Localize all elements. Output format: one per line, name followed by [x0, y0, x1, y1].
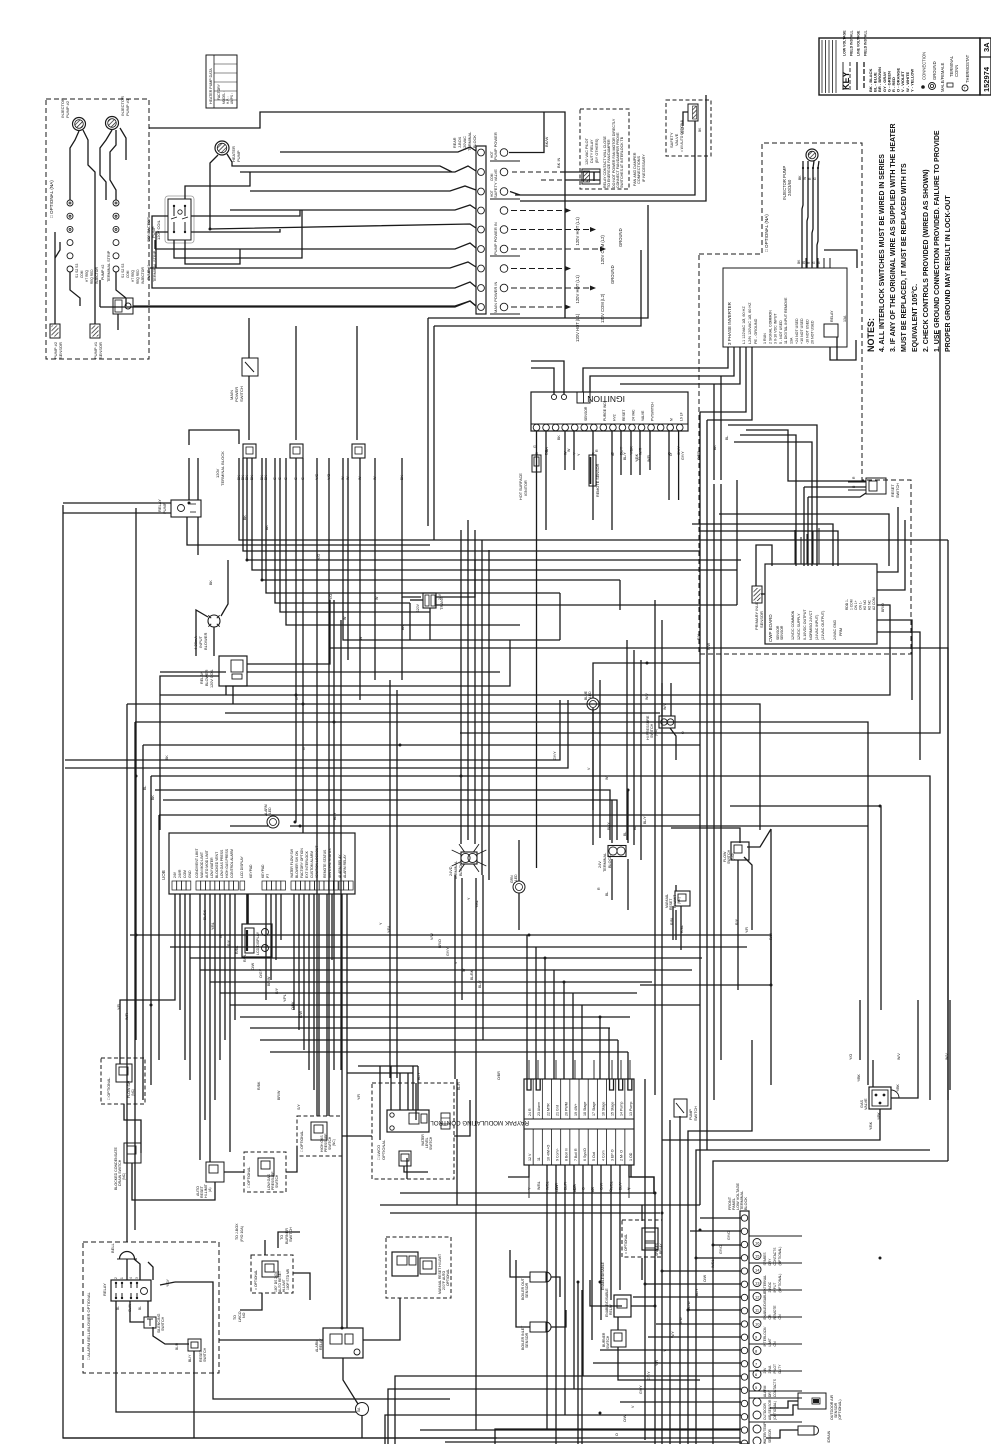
svg-text:AMPS :: AMPS :	[230, 93, 234, 104]
svg-text:BK: BK	[713, 445, 717, 450]
svg-text:RELAY: RELAY	[157, 499, 162, 512]
svg-text:(OPTIONAL): (OPTIONAL)	[838, 1399, 842, 1420]
svg-text:LOW WATER: LOW WATER	[210, 857, 214, 878]
svg-text:LINE VOLTAGE: LINE VOLTAGE	[857, 30, 861, 56]
svg-text:IF NECESSARY: IF NECESSARY	[642, 154, 646, 182]
svg-text:16 Stage: 16 Stage	[601, 1102, 605, 1116]
svg-text:16: 16	[755, 1241, 760, 1246]
svg-text:GY/Y: GY/Y	[681, 451, 685, 460]
svg-text:3. IF ANY OF THE ORIGINAL WIRE: 3. IF ANY OF THE ORIGINAL WIRE AS SUPPLI…	[890, 123, 897, 352]
svg-text:INTERLOCK/: INTERLOCK/	[763, 1327, 767, 1347]
svg-text:W/R: W/R	[647, 455, 651, 462]
svg-text:R/BL: R/BL	[670, 917, 674, 925]
svg-text:ALARM RELAY: ALARM RELAY	[343, 854, 347, 878]
svg-text:SWITCH: SWITCH	[239, 386, 244, 402]
svg-text:□ OPTIONAL: □ OPTIONAL	[624, 1234, 628, 1254]
svg-text:BR/O: BR/O	[881, 603, 885, 612]
svg-text:Y/BL: Y/BL	[387, 925, 391, 933]
svg-text:13A: 13A	[790, 337, 794, 344]
svg-text:3: 3	[135, 1277, 139, 1279]
svg-text:OUTDOOR: OUTDOOR	[763, 1403, 767, 1420]
svg-text:BL: BL	[605, 892, 609, 896]
svg-text:BL: BL	[633, 826, 637, 830]
svg-text:13 Pump: 13 Pump	[629, 1102, 633, 1116]
svg-text:BK: BK	[401, 625, 405, 630]
svg-text:HIGH GAS PRESS: HIGH GAS PRESS	[225, 848, 229, 878]
svg-text:BK: BK	[557, 435, 561, 440]
svg-text:11: 11	[537, 1157, 541, 1161]
svg-text:BK/W: BK/W	[544, 137, 549, 147]
svg-text:DUTY RELAY: DUTY RELAY	[590, 139, 594, 163]
svg-text:BL/W: BL/W	[687, 1301, 691, 1310]
svg-text:3 0-10 VDC INPUT: 3 0-10 VDC INPUT	[774, 313, 778, 344]
svg-text:BK: BK	[151, 795, 155, 800]
svg-text:GROUND: GROUND	[932, 61, 937, 80]
svg-text:20 PWM: 20 PWM	[565, 1102, 569, 1116]
svg-text:SWITCH: SWITCH	[429, 1136, 433, 1150]
svg-text:V/W: V/W	[430, 933, 434, 940]
svg-text:BL: BL	[725, 436, 729, 440]
svg-text:23 Alarm: 23 Alarm	[537, 1102, 541, 1116]
svg-text:GY/Y: GY/Y	[647, 1371, 651, 1380]
svg-text:1 RUN: 1 RUN	[763, 333, 767, 344]
svg-text:Y/R: Y/R	[745, 927, 749, 933]
svg-text:4. ALL INTERLOCK SWITCHES MUST: 4. ALL INTERLOCK SWITCHES MUST BE WIRED …	[879, 154, 886, 352]
svg-text:BK: BK	[165, 755, 169, 760]
svg-text:GROUND: GROUND	[610, 265, 615, 284]
svg-text:R/V: R/V	[697, 633, 701, 640]
svg-text:G: G	[295, 697, 299, 700]
svg-text:GY/Y: GY/Y	[639, 1385, 643, 1394]
svg-text:240/3/60: 240/3/60	[787, 179, 792, 196]
svg-text:R/Y: R/Y	[275, 987, 279, 994]
svg-text:GROUND: GROUND	[618, 228, 623, 247]
svg-text:Y/BK: Y/BK	[896, 1084, 900, 1092]
svg-text:O/W: O/W	[251, 962, 255, 970]
svg-text:5 - NOT USED: 5 - NOT USED	[779, 320, 783, 344]
svg-text:W: W	[462, 968, 466, 972]
svg-text:BL: BL	[623, 832, 627, 836]
svg-text:□ OPTIONAL (NA): □ OPTIONAL (NA)	[49, 180, 54, 218]
svg-text:22 MTR: 22 MTR	[546, 1103, 550, 1116]
svg-text:1. USE GROUND CONNECTION PROVI: 1. USE GROUND CONNECTION PROVIDED. FAILU…	[934, 130, 941, 352]
svg-text:TERMINAL: TERMINAL	[603, 853, 607, 872]
svg-text:W/BL: W/BL	[537, 1181, 541, 1190]
svg-text:BL/Y: BL/Y	[333, 812, 337, 820]
svg-text:PUMP: PUMP	[162, 502, 167, 514]
svg-text:15 Stage: 15 Stage	[611, 1102, 615, 1116]
svg-text:ENABLE/DISABLE: ENABLE/DISABLE	[763, 1291, 767, 1320]
svg-text:12VDC COMMON: 12VDC COMMON	[791, 610, 795, 640]
svg-text:Y/O: Y/O	[329, 594, 333, 600]
svg-text:□ OPTIONAL: □ OPTIONAL	[107, 1077, 111, 1100]
svg-text:W: W	[359, 636, 363, 640]
svg-text:120V HOT (L1): 120V HOT (L1)	[575, 275, 580, 304]
svg-text:IGNITOR: IGNITOR	[524, 480, 528, 496]
svg-text:GY/O: GY/O	[719, 1245, 723, 1254]
svg-text:THERMOSTAT: THERMOSTAT	[965, 54, 970, 83]
svg-text:REAR: REAR	[453, 137, 457, 148]
svg-text:11 DIGITAL INPUT REMOVE: 11 DIGITAL INPUT REMOVE	[784, 297, 788, 344]
svg-text:(NC): (NC)	[122, 1173, 126, 1180]
svg-text:LIMIT: LIMIT	[768, 1338, 772, 1346]
svg-text:BELL: BELL	[110, 1242, 115, 1253]
svg-text:AUTO MOD LIMIT: AUTO MOD LIMIT	[205, 850, 209, 878]
svg-text:3 EP O: 3 EP O	[611, 1149, 615, 1161]
svg-text:W: W	[802, 261, 806, 264]
svg-text:Y/O: Y/O	[849, 1054, 853, 1060]
svg-text:BR/W: BR/W	[277, 1090, 281, 1100]
svg-text:7 Boil R: 7 Boil R	[574, 1148, 578, 1161]
svg-text:LED: LED	[514, 874, 518, 881]
svg-text:FACTORY OPTION: FACTORY OPTION	[300, 848, 304, 878]
svg-text:W/V: W/V	[945, 1053, 949, 1060]
svg-text:W/V: W/V	[645, 693, 649, 700]
svg-text:-10 NOT USED: -10 NOT USED	[805, 319, 809, 344]
svg-text:PUMP #1: PUMP #1	[125, 98, 130, 116]
svg-text:120V COIL: 120V COIL	[156, 219, 161, 240]
svg-text:Y/PL: Y/PL	[283, 994, 287, 1002]
svg-text:R/Y: R/Y	[735, 918, 739, 925]
svg-text:NOTES:: NOTES:	[866, 318, 876, 352]
svg-text:BLOWER SW ON: BLOWER SW ON	[295, 850, 299, 878]
svg-text:VALVE: VALVE	[674, 133, 679, 146]
svg-text:FACTORY: FACTORY	[217, 83, 221, 100]
svg-text:CONNECTION: CONNECTION	[922, 52, 927, 80]
svg-text:MALE/FEMALE: MALE/FEMALE	[940, 62, 945, 92]
svg-text:S/Y: S/Y	[297, 1104, 301, 1110]
svg-text:RESET: RESET	[891, 484, 895, 497]
svg-text:4: 4	[129, 1277, 133, 1279]
svg-text:PUMP #1: PUMP #1	[147, 265, 151, 280]
svg-text:ON 1+: ON 1+	[854, 600, 858, 610]
svg-text:W/V: W/V	[897, 1053, 901, 1060]
svg-text:BK: BK	[265, 525, 269, 530]
svg-text:TERMINAL BLOCK: TERMINAL BLOCK	[220, 451, 225, 486]
svg-text:SWITCH: SWITCH	[289, 1227, 293, 1242]
svg-text:Y/BL: Y/BL	[211, 922, 215, 930]
svg-text:BLOCKED VENT: BLOCKED VENT	[215, 852, 219, 878]
svg-text:PUMP: PUMP	[689, 1109, 693, 1120]
svg-text:PUMP: PUMP	[236, 150, 241, 162]
svg-text:Y/BK: Y/BK	[635, 453, 639, 462]
svg-text:DRY: DRY	[768, 1389, 772, 1397]
svg-text:R: R	[597, 887, 601, 890]
svg-text:H2 NC: H2 NC	[868, 599, 872, 610]
svg-text:PV/SWITCH: PV/SWITCH	[651, 402, 655, 421]
svg-text:PUMP #2: PUMP #2	[65, 100, 70, 118]
svg-text:Y/R: Y/R	[357, 1094, 361, 1100]
svg-text:13A: 13A	[843, 315, 847, 322]
svg-text:TO J-BOX: TO J-BOX	[235, 1223, 239, 1240]
svg-text:SWITCH: SWITCH	[694, 1106, 698, 1121]
svg-text:1: 1	[120, 1277, 124, 1279]
svg-text:DUTY: DUTY	[778, 1364, 782, 1374]
svg-text:24V: 24V	[598, 861, 602, 868]
svg-text:6 Sys/O: 6 Sys/O	[583, 1148, 587, 1161]
svg-text:+24 NOT USED: +24 NOT USED	[795, 318, 799, 344]
svg-text:(21VAC OUTPUT): (21VAC OUTPUT)	[821, 611, 825, 640]
svg-text:PROPER GROUND MAY RESULT IN LO: PROPER GROUND MAY RESULT IN LOCK-OUT	[945, 195, 952, 352]
svg-text:(P/O 10A): (P/O 10A)	[240, 1226, 244, 1242]
svg-text:GND: GND	[681, 126, 685, 134]
svg-text:L2/N 120VAC 1Ø, 60 HZ: L2/N 120VAC 1Ø, 60 HZ	[748, 302, 752, 344]
svg-text:REMOTE STATUS: REMOTE STATUS	[323, 849, 327, 878]
svg-text:(24VAC INPUT): (24VAC INPUT)	[815, 615, 819, 640]
svg-text:COND/VENT LIMIT: COND/VENT LIMIT	[195, 848, 199, 878]
svg-text:□ OPTIONAL: □ OPTIONAL	[254, 1270, 258, 1290]
svg-text:L1 122VAC 1Ø, 60 HZ: L1 122VAC 1Ø, 60 HZ	[742, 306, 746, 344]
svg-text:REQ RED: REQ RED	[136, 269, 140, 284]
svg-text:PILOT: PILOT	[773, 1364, 777, 1374]
svg-text:/DRAIN: /DRAIN	[827, 1430, 831, 1443]
svg-text:Y/G: Y/G	[317, 554, 321, 560]
svg-text:TO: TO	[233, 1315, 237, 1320]
svg-text:(NC): (NC)	[332, 1139, 336, 1146]
svg-text:(NO): (NO)	[731, 853, 735, 860]
svg-text:BL/Y: BL/Y	[643, 816, 647, 824]
svg-text:TERMINAL STRIP: TERMINAL STRIP	[107, 250, 111, 282]
svg-text:CONNECTIONS: CONNECTIONS	[637, 155, 641, 184]
svg-text:V/W: V/W	[679, 1317, 683, 1324]
svg-text:8 Boil In: 8 Boil In	[565, 1148, 569, 1161]
svg-text:BR: BR	[591, 1187, 595, 1192]
svg-text:Y/BK: Y/BK	[857, 1074, 861, 1082]
svg-text:AIR SENSOR: AIR SENSOR	[768, 1399, 772, 1420]
svg-text:SWITCH: SWITCH	[203, 1347, 207, 1362]
svg-text:2. CHECK CONTROLS PROVIDED (WI: 2. CHECK CONTROLS PROVIDED (WIRED AS SHO…	[923, 169, 930, 352]
svg-text:O: O	[609, 1189, 613, 1192]
svg-text:WATER/TEMP: WATER/TEMP	[763, 1422, 767, 1444]
svg-text:BL/Y: BL/Y	[478, 980, 482, 988]
svg-text:12: 12	[755, 1295, 760, 1300]
svg-text:BR/W: BR/W	[267, 976, 271, 986]
svg-text:24VR: 24VR	[178, 869, 182, 878]
svg-text:□ OPTIONAL: □ OPTIONAL	[300, 1131, 304, 1152]
svg-text:HEATER PUMP DATA: HEATER PUMP DATA	[209, 68, 213, 104]
svg-text:LOW GAS PRESS: LOW GAS PRESS	[220, 849, 224, 878]
svg-text:KEYPAD: KEYPAD	[261, 864, 265, 878]
svg-text:Y/R: Y/R	[655, 1360, 659, 1366]
svg-text:REMOTE SENSOR: REMOTE SENSOR	[596, 463, 600, 497]
svg-text:2 SIGNAL COMMON: 2 SIGNAL COMMON	[768, 310, 772, 344]
svg-text:SENSOR: SENSOR	[58, 342, 63, 359]
svg-text:TO: TO	[280, 1235, 284, 1240]
svg-text:COM: COM	[183, 870, 187, 878]
svg-text:KEY: KEY	[841, 71, 851, 90]
svg-text:COM: COM	[490, 173, 494, 181]
svg-text:MUST BE REPLACED, IT MUST BE R: MUST BE REPLACED, IT MUST BE REPLACED WI…	[901, 163, 908, 352]
svg-text:17 Stage: 17 Stage	[592, 1102, 596, 1116]
svg-text:3A: 3A	[982, 42, 991, 52]
svg-text:SENSOR: SENSOR	[584, 406, 588, 421]
svg-text:SENSOR: SENSOR	[98, 342, 103, 359]
svg-text:BL/Y: BL/Y	[695, 1288, 699, 1296]
svg-text:24 VAC: 24 VAC	[632, 409, 636, 421]
svg-text:BL: BL	[143, 786, 147, 790]
svg-text:SWITCH: SWITCH	[161, 1316, 165, 1331]
svg-text:12 V: 12 V	[528, 1153, 532, 1161]
svg-text:+10 NOT USED: +10 NOT USED	[800, 318, 804, 344]
svg-text:152974: 152974	[982, 66, 991, 92]
svg-text:BL/BK: BL/BK	[203, 909, 207, 920]
svg-text:CUSTOM ALARM: CUSTOM ALARM	[310, 851, 314, 878]
svg-text:W/R: W/R	[639, 447, 643, 455]
svg-text:GY/O: GY/O	[727, 1231, 731, 1240]
svg-text:G: G	[219, 935, 223, 938]
svg-text:BLOCK: BLOCK	[473, 135, 477, 148]
svg-text:RESET: RESET	[622, 410, 626, 421]
svg-text:24VD: 24VD	[449, 866, 453, 876]
svg-text:BL/BK: BL/BK	[470, 969, 474, 980]
svg-text:CWP BOARD: CWP BOARD	[768, 614, 773, 642]
svg-text:4 Com: 4 Com	[601, 1150, 605, 1161]
svg-text:R/Y: R/Y	[227, 939, 231, 946]
svg-text:24VAC GND: 24VAC GND	[833, 619, 837, 640]
svg-text:SENSOR: SENSOR	[768, 1428, 772, 1443]
svg-text:WATER FLOW SW: WATER FLOW SW	[290, 848, 294, 878]
svg-text:BL/R: BL/R	[457, 1082, 461, 1090]
svg-text:HOT: HOT	[490, 151, 494, 158]
svg-text:SENSOR: SENSOR	[759, 611, 764, 628]
svg-text:10: 10	[755, 1322, 760, 1327]
svg-text:RELAY: RELAY	[200, 671, 204, 684]
svg-text:3 PHASE INVERTER: 3 PHASE INVERTER	[727, 301, 732, 345]
svg-text:HV2: HV2	[612, 414, 616, 421]
svg-text:R: R	[595, 449, 599, 452]
svg-text:□ OPTIONAL: □ OPTIONAL	[247, 1167, 251, 1188]
svg-text:13: 13	[755, 1281, 760, 1286]
svg-text:TO ENERGIZE FAN/DAMPER: TO ENERGIZE FAN/DAMPER	[607, 139, 611, 188]
svg-text:24 R: 24 R	[528, 1108, 532, 1116]
svg-text:SWITCH: SWITCH	[275, 1174, 279, 1188]
svg-text:EQUIVALENT 105°C.: EQUIVALENT 105°C.	[911, 284, 919, 352]
svg-text:BR/O: BR/O	[438, 939, 442, 948]
svg-text:VALVE: VALVE	[864, 1098, 868, 1110]
svg-text:Y/BL: Y/BL	[475, 900, 479, 908]
svg-text:O: O	[615, 1433, 619, 1436]
svg-text:MAIN POWER IN: MAIN POWER IN	[493, 282, 498, 313]
svg-text:BL/Y: BL/Y	[188, 1354, 192, 1362]
svg-text:BK: BK	[798, 175, 802, 180]
svg-text:R/BL: R/BL	[680, 925, 684, 933]
svg-text:W/V: W/V	[663, 703, 667, 710]
svg-text:PUMP POWER IN: PUMP POWER IN	[493, 222, 498, 255]
svg-text:HT REQ: HT REQ	[131, 269, 135, 282]
svg-text:24VDC: 24VDC	[768, 1281, 772, 1292]
svg-text:CONTACTS: CONTACTS	[773, 1378, 777, 1397]
svg-text:NORMISO 24VCT: NORMISO 24VCT	[809, 610, 813, 640]
svg-text:Y - YELLOW: Y - YELLOW	[909, 69, 914, 92]
svg-text:CONTACTOR: CONTACTOR	[146, 217, 151, 242]
svg-text:5 Out: 5 Out	[592, 1152, 596, 1161]
svg-text:PURGE IND.: PURGE IND.	[603, 401, 607, 421]
svg-text:P7: P7	[266, 874, 270, 878]
svg-text:SENSOR: SENSOR	[525, 1332, 529, 1348]
svg-text:120V: 120V	[416, 603, 420, 612]
svg-text:BL/R: BL/R	[573, 1184, 577, 1192]
svg-text:15: 15	[755, 1254, 760, 1259]
svg-text:S1 S2 S3: S1 S2 S3	[75, 264, 79, 278]
svg-text:180F STD MR: 180F STD MR	[286, 1268, 290, 1290]
svg-text:BL/Y: BL/Y	[607, 822, 611, 830]
svg-text:9 Com/-: 9 Com/-	[556, 1147, 560, 1161]
svg-text:FIELD INSTALL: FIELD INSTALL	[864, 30, 868, 56]
svg-text:14 Pump: 14 Pump	[620, 1102, 624, 1116]
svg-text:RELAY: RELAY	[830, 310, 834, 322]
svg-text:24V: 24V	[763, 1367, 767, 1374]
svg-text:M: M	[670, 418, 674, 421]
svg-text:O/W: O/W	[623, 1414, 627, 1422]
svg-text:OPTIONAL: OPTIONAL	[446, 1269, 450, 1286]
svg-text:R/W: R/W	[769, 932, 773, 940]
svg-text:2: 2	[114, 1277, 118, 1279]
svg-text:(BY OTHERS): (BY OTHERS)	[595, 138, 599, 163]
svg-text:O/W: O/W	[703, 1274, 707, 1282]
svg-text:R/BK: R/BK	[257, 1081, 261, 1090]
svg-text:LCD DISPLAY: LCD DISPLAY	[240, 855, 244, 878]
svg-text:O/BR: O/BR	[697, 451, 701, 460]
svg-text:A2 COM: A2 COM	[872, 597, 876, 610]
svg-text:W/BL: W/BL	[711, 1259, 715, 1268]
svg-text:INPUT: INPUT	[773, 1283, 777, 1293]
svg-text:DRY: DRY	[768, 1258, 772, 1266]
svg-text:W: W	[343, 616, 347, 620]
svg-text:ON 1-: ON 1-	[859, 601, 863, 610]
svg-text:SWITCH: SWITCH	[606, 1335, 610, 1349]
svg-text:HOT: HOT	[490, 190, 494, 197]
svg-text:INJECTOR: INJECTOR	[141, 267, 145, 284]
svg-text:G: G	[533, 445, 537, 448]
svg-text:O/W: O/W	[555, 1184, 559, 1192]
svg-text:GY/Y: GY/Y	[553, 751, 557, 760]
svg-text:BL/Y: BL/Y	[417, 1072, 421, 1080]
svg-text:120V HOT (L1): 120V HOT (L1)	[575, 217, 580, 246]
svg-text:R/W: R/W	[299, 1010, 303, 1018]
svg-text:O/GY: O/GY	[259, 968, 263, 978]
svg-text:□ ALARM BELL/BLOWER OPTIONAL: □ ALARM BELL/BLOWER OPTIONAL	[86, 1291, 91, 1360]
svg-text:RELAY: RELAY	[102, 1283, 107, 1296]
svg-text:1 OD: 1 OD	[629, 1152, 633, 1161]
svg-text:W/R: W/R	[125, 1013, 129, 1020]
svg-text:BR: BR	[545, 447, 549, 452]
svg-text:W: W	[375, 596, 379, 600]
svg-text:R/W: R/W	[707, 642, 711, 650]
svg-text:G: G	[302, 747, 306, 750]
svg-text:SWITCHES AT INTERLOCK TB: SWITCHES AT INTERLOCK TB	[620, 136, 624, 188]
svg-text:CONN: CONN	[954, 65, 959, 77]
svg-text:20 NOT USED: 20 NOT USED	[811, 320, 815, 344]
svg-text:5A: 5A	[357, 1407, 361, 1412]
svg-text:H2 NO: H2 NO	[863, 599, 867, 610]
svg-text:GND: GND	[188, 870, 192, 878]
svg-text:COM: COM	[126, 270, 130, 278]
svg-text:W: W	[605, 776, 609, 780]
svg-text:BK: BK	[243, 515, 247, 520]
svg-text:19 4W+: 19 4W+	[574, 1104, 578, 1117]
svg-text:RELAY: RELAY	[609, 1303, 613, 1315]
svg-text:12VDC SUPPLY: 12VDC SUPPLY	[797, 613, 801, 640]
svg-text:OPTIONAL: OPTIONAL	[381, 1139, 386, 1160]
svg-text:J-BOX: J-BOX	[458, 136, 462, 148]
svg-text:MAN MOD LIMIT: MAN MOD LIMIT	[200, 852, 204, 878]
svg-text:GY/Y: GY/Y	[446, 947, 450, 956]
svg-text:O/BR: O/BR	[497, 1071, 501, 1080]
svg-text:BK IN: BK IN	[556, 157, 561, 168]
svg-text:2 M- O: 2 M- O	[620, 1150, 624, 1161]
svg-text:L9 LF: L9 LF	[679, 412, 683, 421]
svg-text:□ OPTIONAL (NA): □ OPTIONAL (NA)	[764, 214, 769, 252]
